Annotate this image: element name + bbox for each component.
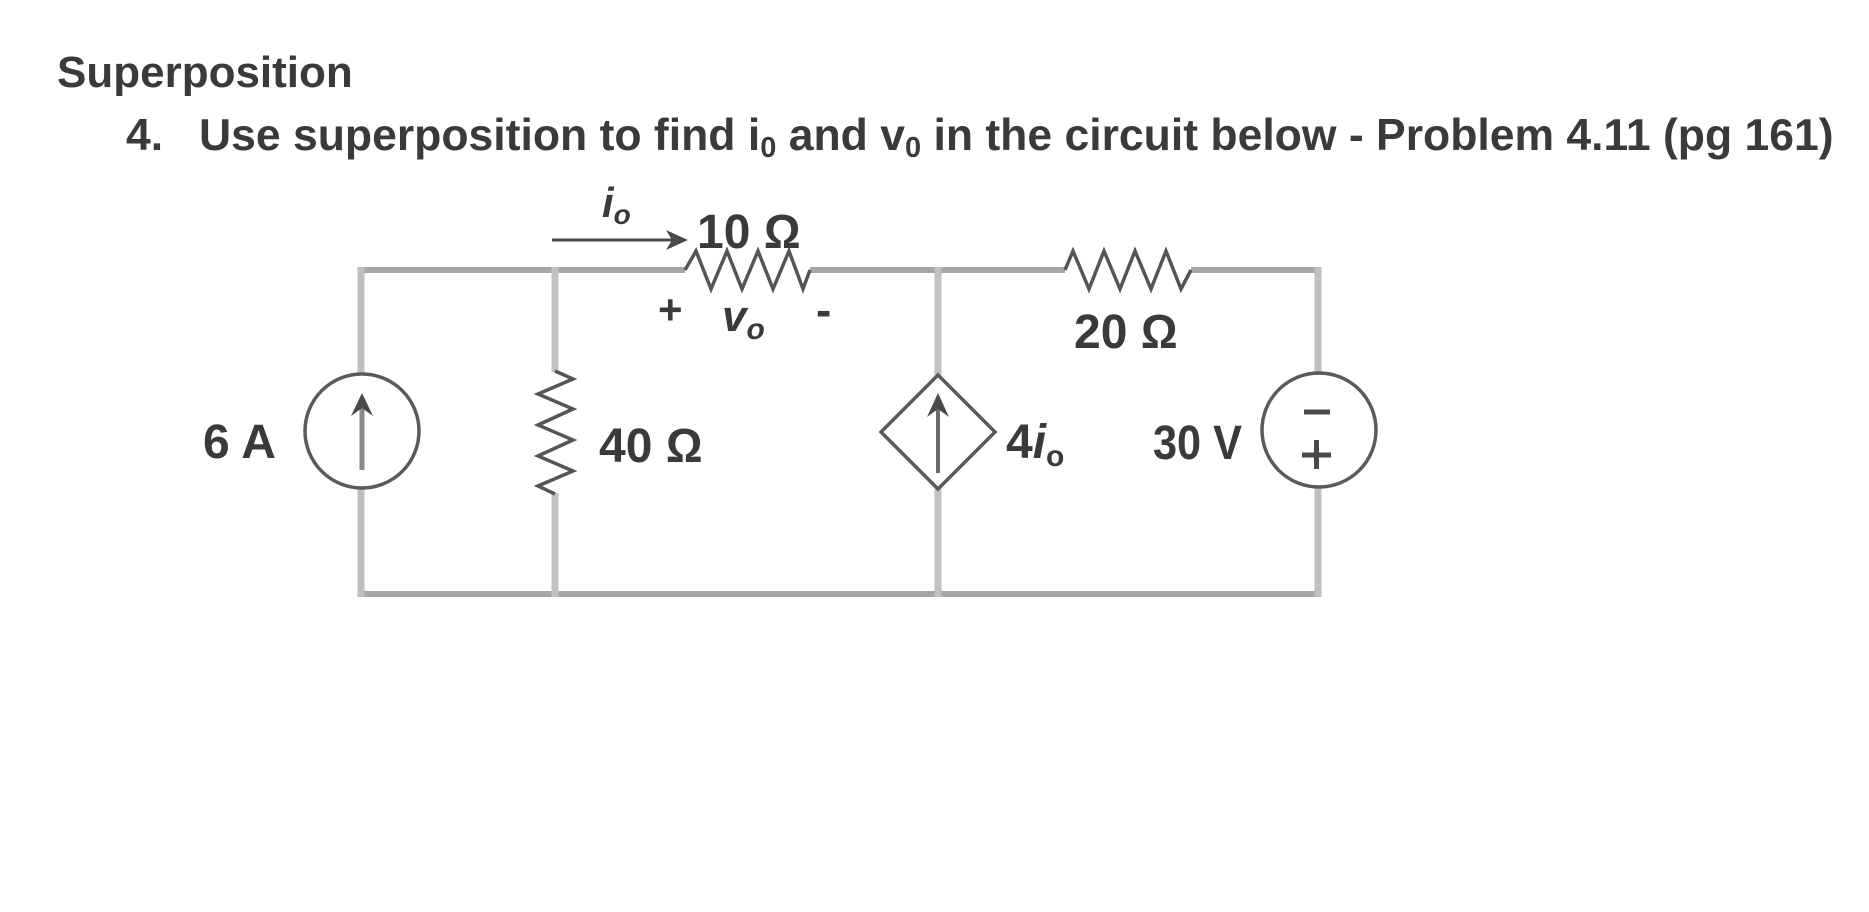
svg-text:10 Ω: 10 Ω [697,206,801,259]
dependent source arrow [927,393,949,473]
svg-text:io: io [602,179,631,230]
wire: dependent-source branch above diamond [935,267,942,376]
voltage source minus sign [1304,410,1330,415]
wire: right vertical above 30V source [1315,267,1322,373]
dependent source diamond 4io [881,375,995,489]
wire: dependent-source branch below diamond [935,488,942,597]
svg-text:vo: vo [722,292,765,346]
wire: 40-ohm branch below resistor [552,493,559,597]
svg-text:30 V: 30 V [1153,417,1242,470]
wire: top right segment [1191,267,1318,273]
wire: left vertical above 6A source [358,267,365,374]
voltage source V1 30V circle [1262,373,1376,487]
resistor R3 20 ohm zigzag [1065,251,1191,289]
svg-text:Use superposition to find i0 a: Use superposition to find i0 and v0 in t… [199,111,1834,164]
current source I1 arrow [351,393,373,470]
svg-text:4io: 4io [1006,416,1064,473]
resistor R2 10 ohm zigzag [685,251,810,289]
resistor R1 40 ohm zigzag [538,371,573,494]
svg-text:6 A: 6 A [203,416,276,469]
svg-text:+: + [658,286,683,333]
svg-text:Superposition: Superposition [57,48,353,97]
wire: 40-ohm branch above resistor [552,267,559,372]
svg-text:-: - [816,284,831,336]
svg-text:20 Ω: 20 Ω [1074,306,1178,359]
current io arrow [552,230,688,250]
wire: bottom [361,591,1318,597]
current source I1 6A circle [305,374,419,488]
wire: top left segment [361,267,685,273]
wire: right vertical below 30V source [1315,487,1322,597]
wire: top middle segment [810,267,1065,273]
voltage source plus sign [1302,440,1331,469]
svg-text:40 Ω: 40 Ω [599,420,703,473]
wire: left vertical below 6A source [358,488,365,597]
svg-text:4.: 4. [126,111,163,160]
